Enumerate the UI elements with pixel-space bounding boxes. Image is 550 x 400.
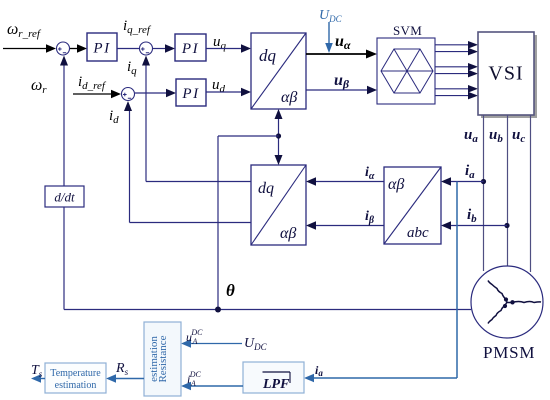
svg-text:PI: PI <box>92 41 110 57</box>
summing junction J1 <box>57 42 70 55</box>
block PI3 <box>176 79 206 106</box>
block U2 dq-alphabeta inverse transform <box>251 165 306 245</box>
node theta junction <box>276 133 281 138</box>
wire J3 to PI3 <box>135 89 176 97</box>
svg-text:abc: abc <box>407 225 429 241</box>
svg-text:uα: uα <box>335 33 351 52</box>
block PI1 <box>87 33 117 61</box>
wire phase c from VSI <box>530 115 532 272</box>
label i_q <box>127 59 137 77</box>
wire T_s output <box>31 374 45 382</box>
svg-text:Rs: Rs <box>115 361 129 377</box>
svg-text:PI: PI <box>181 86 199 102</box>
svg-text:id: id <box>109 108 119 126</box>
label u_b <box>489 127 503 145</box>
wire R_s to temperature estimation <box>106 374 144 382</box>
label U_DC bottom <box>244 336 268 352</box>
label i_a right <box>465 163 475 181</box>
node theta line junction <box>215 307 221 313</box>
svg-text:αβ: αβ <box>388 176 404 193</box>
wire phase b from VSI <box>507 115 509 266</box>
svg-text:SVM: SVM <box>393 23 422 38</box>
svg-text:Ts: Ts <box>31 363 43 379</box>
label u_A_DC <box>186 328 203 346</box>
block LPF <box>243 362 304 393</box>
svg-text:ub: ub <box>489 127 503 145</box>
label u_alpha <box>335 33 351 52</box>
block resistance estimation <box>144 322 181 396</box>
wire phase a from VSI <box>483 115 485 271</box>
svg-text:UDC: UDC <box>244 336 268 352</box>
wire i_beta <box>306 221 384 229</box>
wire i_a measurement blue vertical <box>456 182 458 379</box>
label i_a small <box>315 363 323 378</box>
block VSI <box>478 32 537 118</box>
svg-text:d/dt: d/dt <box>54 190 75 205</box>
label omega_r <box>31 77 47 96</box>
svg-text:iq_ref: iq_ref <box>123 18 152 36</box>
label omega_r_ref <box>7 21 42 40</box>
wire u_d PI3 to dq block <box>206 88 251 96</box>
label i_b right <box>467 207 477 225</box>
block PI2 <box>175 34 206 61</box>
svg-text:iq: iq <box>127 59 137 77</box>
block U1 dq-alphabeta forward transform <box>251 33 306 109</box>
wire theta vertical link between transforms <box>275 109 283 165</box>
label u_q <box>213 34 227 52</box>
wire i_d feedback vertical to J3 <box>124 101 132 223</box>
wire u_beta <box>306 86 377 94</box>
label u_c <box>512 127 525 145</box>
wire d/dt down to theta line <box>63 207 65 310</box>
wire i_d_ref input <box>73 90 121 98</box>
wire omega feedback J1 vertical <box>60 56 68 187</box>
label U_DC top <box>319 8 343 24</box>
svg-text:αβ: αβ <box>280 225 296 242</box>
summing junction J2 <box>140 42 153 55</box>
node i_a tap <box>481 179 486 184</box>
wire J1 to PI1 <box>70 44 87 52</box>
svg-text:ia: ia <box>315 363 323 378</box>
svg-text:PMSM: PMSM <box>483 343 535 362</box>
block SVM <box>377 38 435 104</box>
svg-text:dq: dq <box>258 180 274 197</box>
svg-text:θ: θ <box>226 281 235 300</box>
block d/dt <box>45 186 84 207</box>
wire i_a to abc block <box>441 177 484 185</box>
svg-text:αβ: αβ <box>281 89 297 106</box>
label theta <box>226 281 235 300</box>
wire theta riser <box>217 136 219 310</box>
wire i_alpha <box>306 177 384 185</box>
svg-text:LPF: LPF <box>262 377 290 392</box>
wire i_A_DC LPF to resistance estimation <box>181 382 243 390</box>
wire J2 to PI2 <box>153 44 175 52</box>
svg-text:Temperature: Temperature <box>50 368 101 379</box>
label SVM <box>393 23 422 38</box>
wire i_q feedback horizontal <box>146 181 251 183</box>
wire i_b to abc block <box>441 221 507 229</box>
wire U_DC down arrow <box>325 22 333 53</box>
label u_a <box>464 127 478 145</box>
label PMSM <box>483 343 535 362</box>
wire theta horizontal main <box>64 309 471 311</box>
svg-text:ia: ia <box>465 163 475 181</box>
wire u_q PI2 to dq block <box>206 44 251 52</box>
wire i_d feedback horizontal <box>130 222 252 224</box>
svg-text:estimation: estimation <box>55 380 97 391</box>
svg-text:id_ref: id_ref <box>78 74 107 92</box>
svg-text:iα: iα <box>365 165 375 182</box>
label i_q_ref <box>123 18 152 36</box>
svg-text:iβ: iβ <box>365 209 375 226</box>
label u_beta <box>334 72 350 91</box>
svg-text:ua: ua <box>464 127 478 145</box>
wires SVM to VSI six gate signals <box>435 41 478 99</box>
svg-text:ωr: ωr <box>31 77 47 96</box>
label T_s <box>31 363 43 379</box>
label i_d_ref <box>78 74 107 92</box>
wire i_q feedback vertical to J2 <box>142 56 150 182</box>
svg-text:ωr_ref: ωr_ref <box>7 21 42 40</box>
svg-text:uβ: uβ <box>334 72 350 91</box>
label u_d <box>212 77 226 95</box>
wire i_a into LPF <box>304 374 457 382</box>
label i_alpha <box>365 165 375 182</box>
wire u_alpha black <box>306 50 377 59</box>
label i_A_DC <box>187 370 202 388</box>
wire theta branch horizontal <box>218 135 279 137</box>
svg-text:VSI: VSI <box>488 63 523 85</box>
summing junction J3 <box>122 88 135 101</box>
svg-text:PI: PI <box>181 41 199 57</box>
motor PMSM circle <box>471 266 543 338</box>
svg-text:estimation: estimation <box>148 336 160 382</box>
svg-text:UDC: UDC <box>319 8 343 24</box>
motor PMSM rotor symbol <box>488 281 541 324</box>
svg-text:uq: uq <box>213 34 227 52</box>
SVM hexagon sector diagram <box>381 49 433 93</box>
node i_b tap <box>504 223 509 228</box>
label R_s <box>115 361 129 377</box>
svg-text:dq: dq <box>259 46 277 65</box>
block temperature estimation <box>45 363 106 393</box>
block U3 alphabeta-abc transform <box>384 167 441 244</box>
label i_d <box>109 108 119 126</box>
wire PI1 to J2 <box>117 48 139 50</box>
wire U_DC to resistance estimation <box>181 339 242 347</box>
svg-text:uc: uc <box>512 127 525 145</box>
label i_beta <box>365 209 375 226</box>
svg-text:ib: ib <box>467 207 477 225</box>
wire omega_r_ref input <box>3 44 56 52</box>
